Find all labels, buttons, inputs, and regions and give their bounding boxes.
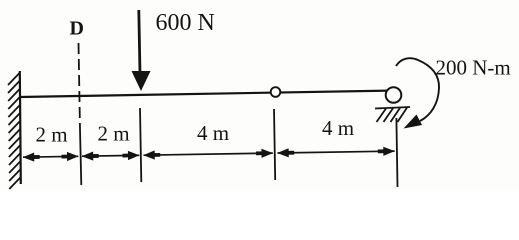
svg-text:4 m: 4 m bbox=[322, 116, 354, 140]
extension line below hinge bbox=[274, 109, 275, 180]
svg-text:600 N: 600 N bbox=[156, 10, 215, 36]
svg-text:2 m: 2 m bbox=[36, 123, 68, 147]
extension line below force point bbox=[140, 108, 141, 182]
beam bbox=[20, 91, 389, 97]
extension line below D bbox=[80, 129, 81, 185]
node D dashed line bbox=[79, 43, 81, 129]
dimension line 2 m (D to force) bbox=[82, 154, 139, 157]
extension line below roller bbox=[396, 118, 397, 187]
svg-text:2 m: 2 m bbox=[98, 122, 130, 146]
moment arc 200 N-m bbox=[396, 58, 439, 121]
dimension line 4 m (force to hinge) bbox=[144, 153, 273, 155]
roller support circle bbox=[386, 87, 402, 103]
dimension line 2 m (wall to D) bbox=[23, 155, 78, 158]
svg-text:D: D bbox=[70, 18, 84, 40]
fixed wall hatching bbox=[8, 73, 21, 189]
internal hinge (pin) bbox=[271, 87, 281, 97]
force arrow 600 N bbox=[139, 10, 140, 74]
svg-text:200 N-m: 200 N-m bbox=[436, 56, 511, 80]
wall vertical line bbox=[20, 71, 21, 184]
moment arrowhead bbox=[404, 115, 423, 129]
roller ground hatching bbox=[377, 108, 408, 122]
dimension line 4 m (hinge to roller) bbox=[278, 151, 395, 153]
roller ground line bbox=[375, 107, 410, 109]
svg-text:4 m: 4 m bbox=[197, 121, 229, 145]
